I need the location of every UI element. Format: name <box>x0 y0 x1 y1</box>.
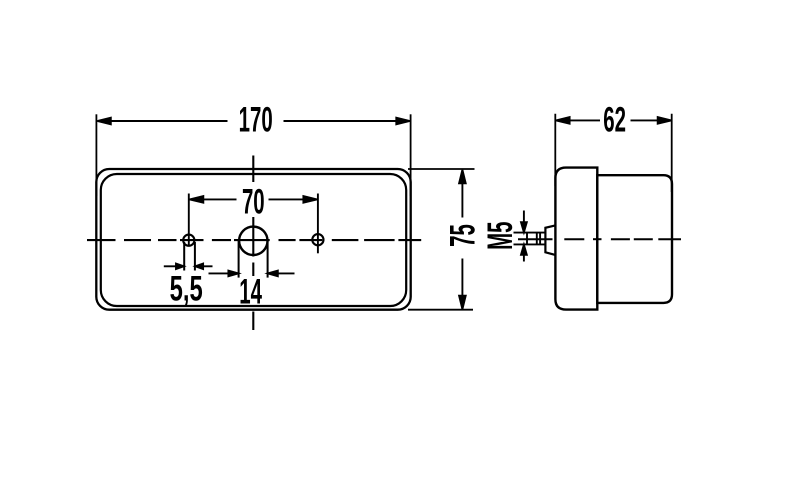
left mounting hole <box>183 235 194 246</box>
svg-text:170: 170 <box>239 101 273 140</box>
slot 14 edge lines <box>239 241 268 278</box>
side view lens body <box>597 175 672 303</box>
svg-text:75: 75 <box>444 224 483 247</box>
horizontal center line <box>87 239 421 241</box>
dimension 5,5 arrows <box>164 264 213 269</box>
side view center line <box>518 238 681 240</box>
dimension M5 arrows <box>521 211 527 262</box>
M5 stud outline <box>514 233 546 245</box>
left hole vertical axis / 70 left extension <box>188 194 190 247</box>
vertical center line <box>252 156 254 331</box>
front view inner lens edge <box>101 174 406 306</box>
svg-text:M5: M5 <box>481 222 520 250</box>
dimension 75 extension lines <box>408 169 475 310</box>
dimension 75 line and arrows <box>459 170 466 309</box>
side view housing flange <box>555 168 597 310</box>
dimension 14 arrows <box>209 271 295 277</box>
dimension 70 line <box>189 196 317 203</box>
svg-text:70: 70 <box>242 183 265 222</box>
right mounting hole <box>312 234 323 245</box>
dimension 170 extension lines <box>96 114 410 196</box>
slot 5,5 edge lines <box>184 242 195 271</box>
dimension 62 extension lines <box>555 114 671 192</box>
front view outer body outline <box>96 169 410 310</box>
dimension 170 line and arrows <box>97 118 410 125</box>
center hole circle <box>239 227 267 255</box>
svg-text:5,5: 5,5 <box>170 270 203 309</box>
dimension 62 line and arrows <box>556 117 671 124</box>
svg-text:62: 62 <box>603 101 626 140</box>
svg-text:14: 14 <box>239 273 262 312</box>
right hole vertical axis / 70 right extension <box>317 194 319 254</box>
stud boss <box>545 226 554 255</box>
